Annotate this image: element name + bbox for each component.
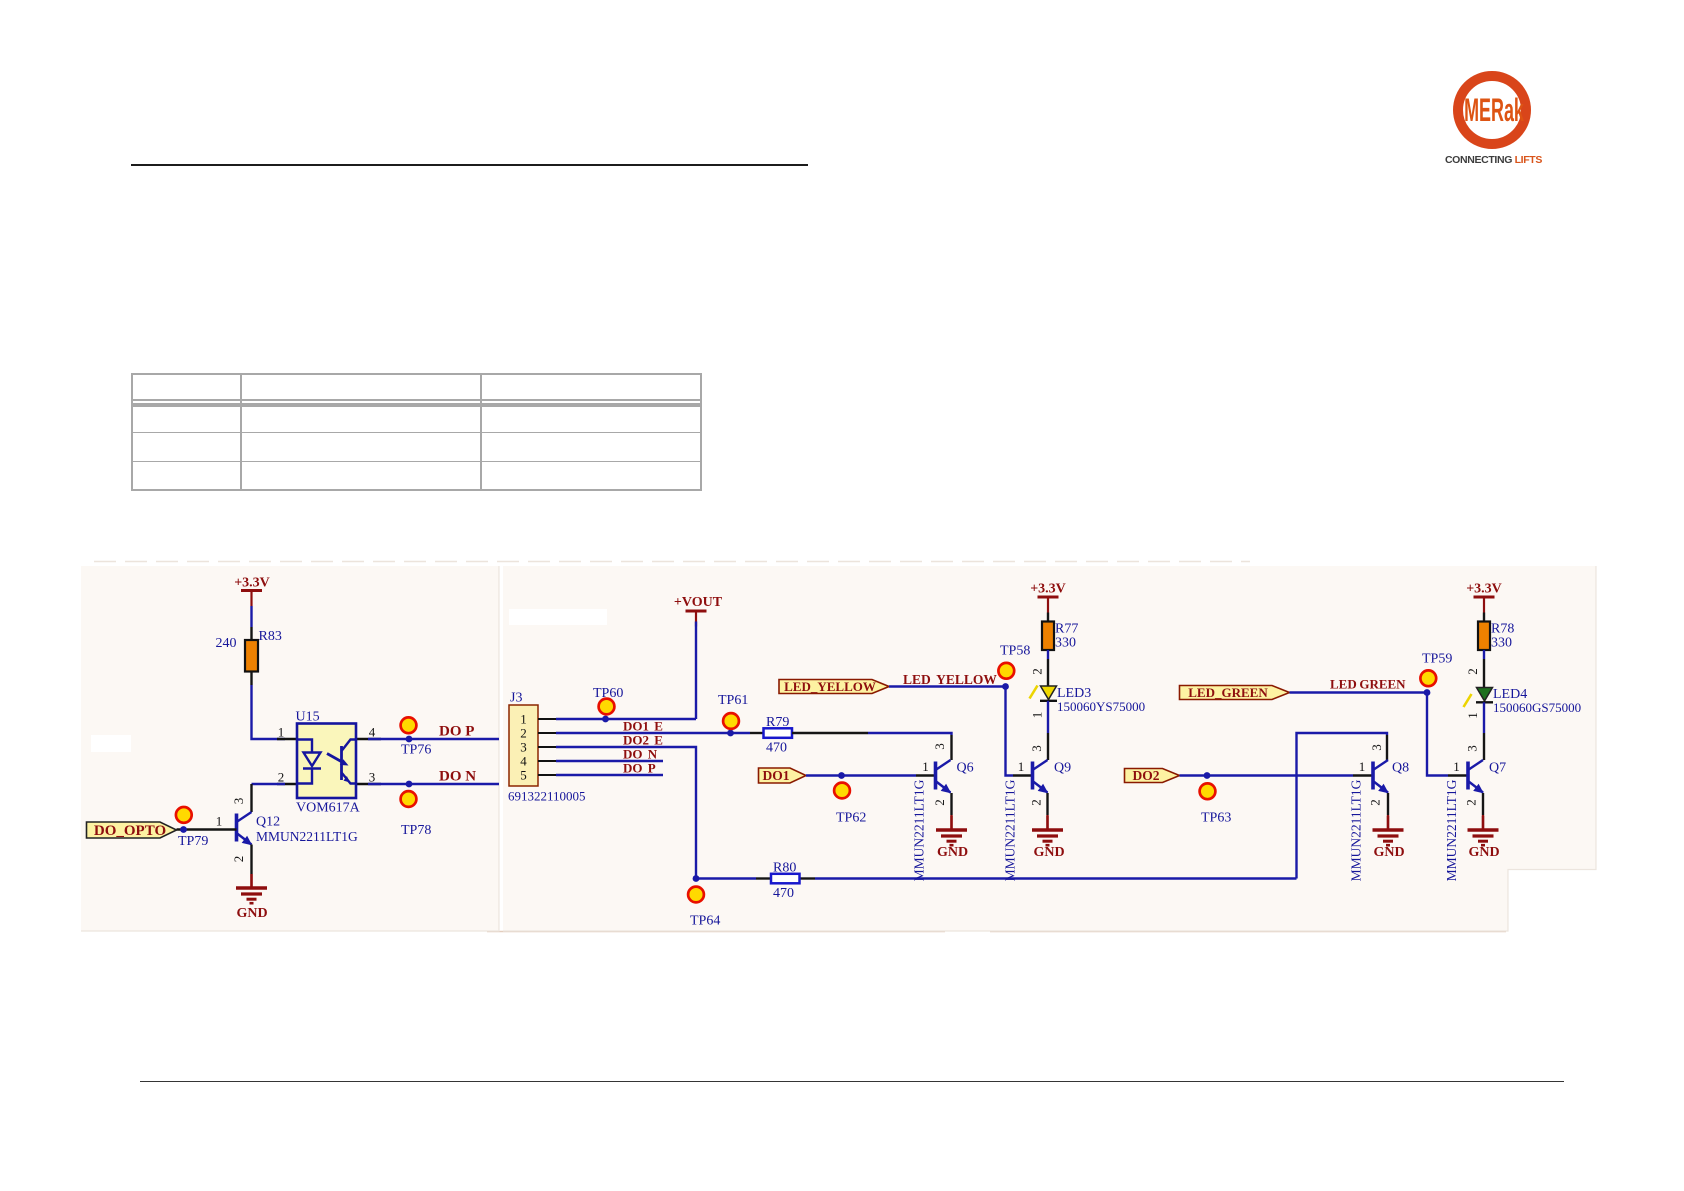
- svg-text:150060GS75000: 150060GS75000: [1493, 700, 1581, 715]
- svg-text:2: 2: [278, 770, 285, 785]
- svg-text:4: 4: [369, 725, 376, 740]
- LED LED4: [1464, 687, 1582, 715]
- node DO_P junction: [406, 736, 413, 743]
- flag LED_GREEN: [1180, 685, 1290, 700]
- svg-text:1: 1: [922, 759, 929, 774]
- wire U15 pin2 to Q12 collector: [252, 783, 286, 785]
- svg-text:Q7: Q7: [1489, 761, 1506, 776]
- wire DO1_E net: [556, 732, 750, 734]
- svg-text:470: 470: [773, 886, 794, 901]
- wire DO1 net: [806, 774, 916, 776]
- svg-text:3: 3: [932, 743, 947, 750]
- transistor Q9: [1003, 759, 1072, 881]
- schematic image background left block: [81, 566, 499, 931]
- svg-text:470: 470: [766, 741, 787, 756]
- testpoint TP58: [998, 644, 1030, 679]
- svg-text:3: 3: [231, 798, 246, 805]
- svg-text:330: 330: [1491, 636, 1512, 651]
- svg-text:R78: R78: [1491, 622, 1514, 637]
- svg-text:DO2: DO2: [1133, 768, 1160, 783]
- svg-text:TP79: TP79: [178, 834, 208, 849]
- svg-text:DO P: DO P: [439, 724, 474, 740]
- testpoint TP62: [834, 783, 866, 826]
- wire +VOUT down: [695, 622, 697, 720]
- optocoupler U15: [278, 710, 376, 816]
- J3 pin stubs: [538, 719, 556, 775]
- svg-text:LED_GREEN: LED_GREEN: [1188, 685, 1268, 700]
- transistor Q8: [1349, 744, 1410, 881]
- wire R80 net to Q8 collector: [1297, 733, 1388, 879]
- node TP64 junction: [693, 875, 700, 882]
- svg-text:3: 3: [369, 770, 376, 785]
- svg-text:GND: GND: [1033, 845, 1064, 860]
- testpoint TP63: [1200, 783, 1232, 825]
- flag DO1: [759, 768, 807, 783]
- wire Q12 base: [177, 828, 237, 830]
- resistor R79: [764, 715, 793, 756]
- svg-text:TP62: TP62: [836, 811, 866, 826]
- svg-text:DO_OPTO: DO_OPTO: [94, 823, 166, 839]
- svg-text:1: 1: [1030, 712, 1045, 719]
- svg-text:DO P: DO P: [623, 761, 656, 776]
- svg-text:2: 2: [1029, 799, 1044, 806]
- svg-text:DO N: DO N: [623, 747, 658, 762]
- svg-text:150060YS75000: 150060YS75000: [1057, 699, 1145, 714]
- transistor Q7: [1444, 759, 1506, 881]
- wire Q9 emitter to GND: [1046, 793, 1048, 815]
- testpoint TP59: [1420, 652, 1452, 687]
- wire DO_P net: [368, 738, 499, 740]
- wire LED_GREEN net: [1290, 693, 1449, 776]
- wire LED_YELLOW net: [889, 687, 1013, 776]
- svg-text:GND: GND: [1373, 845, 1404, 860]
- svg-text:Q6: Q6: [957, 761, 974, 776]
- wire DO_N net: [368, 783, 499, 785]
- wire DO_N stub: [556, 760, 663, 762]
- svg-text:2: 2: [1464, 799, 1479, 806]
- power +VOUT: [674, 595, 723, 627]
- svg-text:5: 5: [520, 768, 527, 783]
- node TP61 junction: [727, 730, 734, 737]
- svg-text:2: 2: [1030, 668, 1045, 675]
- svg-text:2: 2: [1465, 668, 1480, 675]
- testpoint TP60: [593, 686, 623, 714]
- svg-text:R77: R77: [1055, 622, 1078, 637]
- U15 internal light arrow: [327, 754, 349, 766]
- wire J3 pin1 to +VOUT: [556, 718, 696, 720]
- wire DO2 net: [1180, 774, 1354, 776]
- flag DO2: [1125, 768, 1180, 783]
- svg-text:691322110005: 691322110005: [508, 789, 586, 804]
- testpoint TP61: [718, 693, 748, 729]
- svg-text:TP58: TP58: [1000, 644, 1030, 659]
- svg-text:LED GREEN: LED GREEN: [1330, 677, 1406, 692]
- svg-text:VOM617A: VOM617A: [296, 801, 361, 816]
- node TP63 junction: [1204, 772, 1211, 779]
- node TP60 junction: [602, 716, 609, 723]
- wire DO2_E net: [556, 747, 696, 879]
- resistor R83: [216, 629, 282, 672]
- faint top dashed line: [94, 561, 1250, 563]
- svg-text:TP60: TP60: [593, 686, 623, 701]
- testpoint TP79: [176, 807, 208, 849]
- svg-text:4: 4: [520, 754, 527, 769]
- svg-text:R79: R79: [766, 715, 789, 730]
- U15 internal phototransistor: [342, 740, 357, 784]
- flag LED_YELLOW: [779, 679, 889, 694]
- top rule: [131, 164, 808, 166]
- wire Q12 emitter to GND: [250, 845, 252, 875]
- svg-text:1: 1: [216, 814, 223, 829]
- ground GND (Q6): [936, 816, 968, 860]
- wire R79 to Q6 collector: [792, 732, 868, 734]
- svg-text:TP63: TP63: [1201, 811, 1231, 826]
- svg-text:GND: GND: [1468, 845, 1499, 860]
- svg-text:LED_YELLOW: LED_YELLOW: [784, 679, 876, 694]
- svg-text:TP59: TP59: [1422, 652, 1452, 667]
- svg-text:MMUN2211LT1G: MMUN2211LT1G: [912, 779, 927, 881]
- svg-text:U15: U15: [296, 710, 320, 725]
- LED LED3: [1030, 686, 1146, 715]
- wire Q8 emitter to GND: [1387, 793, 1389, 815]
- testpoint TP78: [401, 791, 432, 838]
- wire R77 to LED3: [1047, 650, 1049, 659]
- node TP59 junction: [1424, 689, 1431, 696]
- svg-text:330: 330: [1055, 636, 1076, 651]
- schematic image background right block: [503, 566, 1596, 931]
- svg-text:MMUN2211LT1G: MMUN2211LT1G: [1003, 779, 1018, 881]
- svg-text:TP61: TP61: [718, 693, 748, 708]
- svg-text:GND: GND: [937, 845, 968, 860]
- wire Q7 emitter to GND: [1482, 793, 1484, 815]
- logo MERak: [1453, 71, 1531, 149]
- svg-text:+3.3V: +3.3V: [234, 576, 270, 591]
- wire DO_P stub: [556, 774, 663, 776]
- svg-text:240: 240: [216, 636, 237, 651]
- svg-text:MMUN2211LT1G: MMUN2211LT1G: [1349, 779, 1364, 881]
- wire R78 to LED4: [1483, 650, 1485, 659]
- svg-text:DO1: DO1: [763, 768, 790, 783]
- svg-text:Q9: Q9: [1054, 761, 1071, 776]
- svg-text:R83: R83: [259, 629, 282, 644]
- power +3.3V (Q7 branch): [1466, 582, 1502, 613]
- resistor R77: [1042, 622, 1078, 651]
- svg-text:+3.3V: +3.3V: [1030, 582, 1066, 597]
- power +3.3V (Q9 branch): [1030, 582, 1066, 613]
- transistor Q12: [216, 798, 358, 863]
- svg-text:1: 1: [1465, 712, 1480, 719]
- connector J3: [508, 691, 586, 804]
- svg-text:2: 2: [520, 726, 527, 741]
- resistor R80: [771, 861, 800, 902]
- svg-text:DO N: DO N: [439, 769, 476, 785]
- svg-text:MMUN2211LT1G: MMUN2211LT1G: [256, 829, 358, 844]
- svg-text:TP78: TP78: [401, 823, 431, 838]
- node TP62 junction: [838, 772, 845, 779]
- ground GND (Q12): [236, 874, 268, 921]
- svg-text:DO2 E: DO2 E: [623, 733, 663, 748]
- svg-text:3: 3: [1465, 745, 1480, 752]
- wire LED4 to Q7 collector: [1483, 702, 1485, 733]
- transistor Q6: [912, 743, 974, 881]
- resistor R78: [1478, 622, 1514, 651]
- U15 internal LED: [297, 740, 321, 784]
- svg-text:R80: R80: [773, 861, 796, 876]
- svg-text:2: 2: [1368, 799, 1383, 806]
- svg-text:MMUN2211LT1G: MMUN2211LT1G: [1444, 779, 1459, 881]
- faint block borders: [503, 566, 1596, 931]
- wire R80 net: [696, 877, 756, 879]
- svg-text:3: 3: [1369, 744, 1384, 751]
- svg-text:GND: GND: [236, 906, 267, 921]
- svg-text:DO1 E: DO1 E: [623, 719, 663, 734]
- svg-text:+3.3V: +3.3V: [1466, 582, 1502, 597]
- testpoint TP64: [688, 887, 720, 929]
- flag DO_OPTO: [87, 822, 177, 839]
- bottom rule: [140, 1081, 1564, 1082]
- svg-text:TP76: TP76: [401, 743, 431, 758]
- svg-text:TP64: TP64: [690, 914, 720, 929]
- op-to U15 pin stubs: [277, 739, 381, 784]
- svg-text:Q8: Q8: [1392, 761, 1409, 776]
- svg-text:3: 3: [520, 740, 527, 755]
- svg-text:1: 1: [520, 712, 527, 727]
- wire to R77: [1047, 613, 1049, 622]
- ground GND (Q9): [1032, 816, 1065, 860]
- table: [131, 373, 702, 491]
- power +3.3V (left): [234, 576, 270, 607]
- ground GND (Q7): [1468, 816, 1500, 860]
- svg-text:J3: J3: [510, 691, 522, 706]
- svg-text:+VOUT: +VOUT: [674, 595, 723, 610]
- ground GND (Q8): [1373, 816, 1405, 860]
- svg-text:1: 1: [1359, 759, 1366, 774]
- wire to R78: [1483, 613, 1485, 622]
- node TP58 junction: [1002, 683, 1009, 690]
- svg-text:1: 1: [1018, 759, 1025, 774]
- node DO_N junction: [406, 781, 413, 788]
- svg-text:2: 2: [231, 856, 246, 863]
- wire Q6 emitter to GND: [950, 793, 952, 815]
- wire R83 to U15 pin1: [250, 672, 252, 686]
- svg-text:LED YELLOW: LED YELLOW: [903, 672, 997, 687]
- faint bottom edge lines: [487, 931, 945, 933]
- svg-text:3: 3: [1029, 745, 1044, 752]
- svg-text:1: 1: [278, 725, 285, 740]
- testpoint TP76: [401, 717, 432, 757]
- svg-text:1: 1: [1453, 759, 1460, 774]
- svg-text:Q12: Q12: [256, 815, 280, 830]
- svg-text:2: 2: [932, 799, 947, 806]
- node TP79 junction: [180, 826, 187, 833]
- wire LED3 to Q9 collector: [1047, 701, 1049, 733]
- wire +3.3V to R83: [250, 606, 252, 627]
